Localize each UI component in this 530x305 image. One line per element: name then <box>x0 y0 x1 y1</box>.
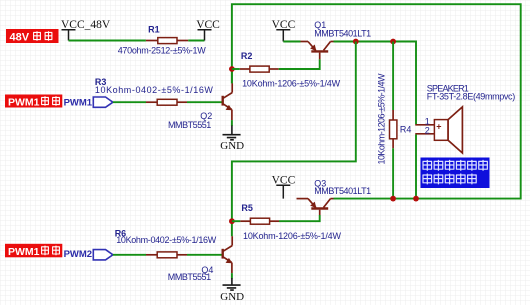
svg-text:MMBT5551: MMBT5551 <box>168 120 211 130</box>
svg-text:VCC_48V: VCC_48V <box>61 19 111 31</box>
junction node (R2 left) <box>229 66 235 72</box>
svg-text:MMBT5551: MMBT5551 <box>168 272 211 282</box>
resistor R5 <box>240 218 279 224</box>
svg-text:PWM1: PWM1 <box>64 97 93 108</box>
wire Q2 emitter to ground <box>231 120 233 126</box>
svg-text:10Kohm-0402-±5%-1/16W: 10Kohm-0402-±5%-1/16W <box>116 235 217 245</box>
svg-text:MMBT5401LT1: MMBT5401LT1 <box>314 186 371 196</box>
junction node (R5 left) <box>229 218 235 224</box>
svg-text:PWM1: PWM1 <box>8 96 40 108</box>
transistor Q4 <box>223 236 233 273</box>
junction node (branch R4) <box>390 39 396 45</box>
wire R1 to VCC <box>188 40 204 42</box>
port PWM2 <box>64 249 113 260</box>
svg-text:R1: R1 <box>148 25 160 35</box>
resistor R4 <box>390 110 397 148</box>
wire node to R2 <box>232 68 240 70</box>
wire R4 branch upper <box>392 42 394 111</box>
svg-text:2: 2 <box>425 125 430 135</box>
wire Q1 collector to speaker pin1 <box>334 42 417 125</box>
svg-text:PWM2: PWM2 <box>64 249 93 260</box>
speaker SPEAKER1 <box>415 107 462 153</box>
resistor R3 <box>146 99 187 105</box>
resistor R6 <box>146 252 187 258</box>
junction node (R4 bottom) <box>390 196 396 202</box>
svg-text:PWM1: PWM1 <box>8 246 40 258</box>
wire R4 lower to rail <box>392 148 394 198</box>
label 48V输入 <box>6 29 59 43</box>
svg-text:MMBT5401LT1: MMBT5401LT1 <box>314 28 371 38</box>
wire Q2 collector up to node <box>231 69 233 83</box>
wire R2 to Q1 base <box>279 59 320 69</box>
wire PWM2 to R6 <box>113 254 146 256</box>
svg-text:GND: GND <box>220 291 244 303</box>
svg-text:470ohm-2512-±5%-1W: 470ohm-2512-±5%-1W <box>118 45 207 55</box>
power port VCC_48V <box>61 19 111 41</box>
label PWM1输入 (bottom) <box>5 244 62 258</box>
wire R6 to Q4 base <box>187 254 222 256</box>
svg-text:VCC: VCC <box>272 19 296 31</box>
power port VCC (R1 right) <box>196 19 220 41</box>
power port VCC (Q3 emitter) <box>272 174 296 198</box>
svg-text:+: + <box>436 122 441 132</box>
svg-text:10Kohm-0402-±5%-1/16W: 10Kohm-0402-±5%-1/16W <box>95 85 213 95</box>
svg-text:R5: R5 <box>241 203 253 213</box>
wire Q4 emitter to ground <box>231 273 233 278</box>
transistor Q3 <box>297 199 334 215</box>
wire branch down-left to R5 node and Q4 collector <box>232 42 356 237</box>
wire R5 to Q3 base <box>279 215 320 221</box>
power port VCC (Q1 emitter) <box>272 19 296 42</box>
svg-text:10Kohm-1206-±5%-1/4W: 10Kohm-1206-±5%-1/4W <box>243 231 342 241</box>
transistor Q2 <box>223 83 233 120</box>
ground GND (Q4) <box>220 278 244 303</box>
wire R3 to Q2 base <box>187 101 222 103</box>
svg-text:48V: 48V <box>10 31 30 43</box>
resistor R1 <box>146 38 188 44</box>
wire VCC to Q1 emitter <box>283 41 300 43</box>
svg-text:VCC: VCC <box>196 19 220 31</box>
resistor R2 <box>240 66 279 72</box>
wire PWM1 to R3 <box>113 101 146 103</box>
wire speaker pin2 down to rail <box>415 135 417 199</box>
svg-text:10Kohm-1206-±5%-1/4W: 10Kohm-1206-±5%-1/4W <box>242 78 341 88</box>
transistor Q1 <box>301 42 334 60</box>
wire node to R5 <box>232 220 240 222</box>
ground GND (Q2) <box>220 126 244 152</box>
label PWM1输入 (top) <box>5 95 62 109</box>
port PWM1 <box>64 97 113 108</box>
junction node (pin2 on rail) <box>413 196 419 202</box>
svg-text:GND: GND <box>220 140 244 152</box>
wire VCC_48V to R1 <box>69 40 146 42</box>
label 被驱动的压电陶瓷蜂鸣片 <box>421 158 490 189</box>
junction node (branch x356) <box>353 39 359 45</box>
wire top rail from node B down-left column to right edge <box>232 4 521 198</box>
svg-text:10Kohm-1206-±5%-1/4W: 10Kohm-1206-±5%-1/4W <box>376 73 386 165</box>
svg-text:R2: R2 <box>241 51 253 61</box>
svg-text:R4: R4 <box>400 125 412 135</box>
svg-text:FT-35T-2.8E(49mmpvc): FT-35T-2.8E(49mmpvc) <box>427 91 515 101</box>
